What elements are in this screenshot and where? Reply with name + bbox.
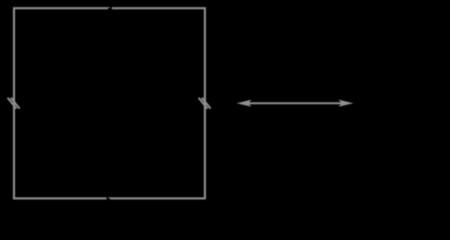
break mark on right wire (slash 2) — [202, 98, 211, 109]
break mark on left wire (slash 1) — [8, 98, 17, 109]
current arrowhead (black) on bottom wire — [106, 196, 111, 203]
current arrowhead (black) on top wire — [106, 6, 112, 13]
wire: square loop outline — [14, 8, 205, 198]
dimension arrow: shaft — [248, 102, 342, 104]
break mark on left wire (slash 2) — [11, 98, 20, 109]
dimension arrow: right arrowhead — [339, 100, 354, 107]
break mark on right wire (slash 1) — [199, 98, 208, 109]
dimension arrow: left arrowhead — [237, 100, 252, 107]
